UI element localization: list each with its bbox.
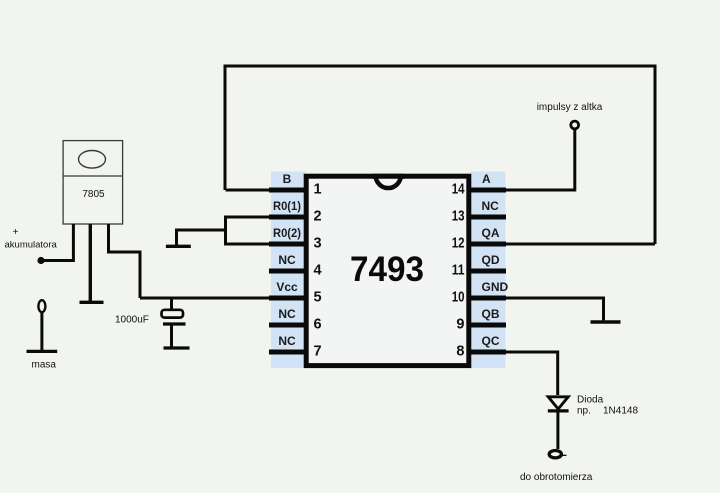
pin 7 stub <box>269 350 307 355</box>
wire 7805 ground pin <box>89 224 92 301</box>
svg-text:impulsy z altka: impulsy z altka <box>537 102 603 113</box>
pin 4 stub <box>269 269 307 274</box>
svg-text:3: 3 <box>314 236 322 252</box>
wire feedback loop (pin1 B to pin12 QA) <box>225 66 655 244</box>
svg-text:B: B <box>283 172 292 186</box>
pin 11 stub <box>468 269 506 274</box>
svg-text:14: 14 <box>452 182 465 198</box>
svg-text:QC: QC <box>482 334 500 348</box>
regulator U2 7805 body <box>63 141 123 224</box>
svg-text:NC: NC <box>278 334 296 348</box>
svg-text:8: 8 <box>456 344 464 360</box>
ground GND3 <box>591 320 621 323</box>
svg-text:QD: QD <box>482 253 500 267</box>
wire R0 to ground <box>177 230 226 245</box>
svg-text:np.: np. <box>577 406 591 417</box>
svg-text:A: A <box>482 172 491 186</box>
wire Vcc rail <box>140 297 270 300</box>
wire 7805 input pin <box>44 224 73 261</box>
svg-text:+: + <box>13 227 19 238</box>
terminal masa <box>38 300 45 312</box>
svg-text:9: 9 <box>456 317 464 333</box>
pin 3 stub <box>269 242 307 247</box>
svg-text:R0(2): R0(2) <box>273 226 301 240</box>
IC U1 right pin band <box>471 172 506 369</box>
svg-text:masa: masa <box>32 360 57 371</box>
pin 9 stub <box>468 323 506 328</box>
IC U1 notch <box>376 176 401 189</box>
svg-text:GND: GND <box>482 280 509 294</box>
svg-text:QA: QA <box>482 226 500 240</box>
pin 12 stub <box>468 242 506 247</box>
svg-text:7: 7 <box>314 344 322 360</box>
svg-text:7805: 7805 <box>82 189 105 200</box>
svg-text:QB: QB <box>482 307 500 321</box>
svg-text:10: 10 <box>452 290 465 306</box>
wire A to impulsy terminal <box>470 130 575 191</box>
diode D1 <box>548 397 568 409</box>
ground GND1 (R0) <box>166 245 191 248</box>
wire R0 junction vertical <box>224 216 227 246</box>
ground bar capacitor <box>164 346 190 349</box>
pin 5 stub <box>269 296 307 301</box>
wire GND pin10 <box>470 298 604 320</box>
svg-text:13: 13 <box>452 209 465 225</box>
pin 1 stub <box>269 188 307 193</box>
svg-text:5: 5 <box>314 290 322 306</box>
pin 2 stub <box>269 215 307 220</box>
svg-text:NC: NC <box>278 253 296 267</box>
svg-text:1N4148: 1N4148 <box>603 406 638 417</box>
ground GND2 (7805) <box>80 301 104 304</box>
IC U1 left pin band <box>271 172 306 369</box>
svg-text:6: 6 <box>314 317 322 333</box>
pin 14 stub <box>468 188 506 193</box>
wire QC to diode <box>470 352 558 395</box>
wire 7805 output pin <box>109 224 141 298</box>
svg-text:12: 12 <box>452 236 465 252</box>
svg-text:Vcc: Vcc <box>276 280 298 294</box>
capacitor C1 1000uF <box>170 298 173 310</box>
svg-text:akumulatora: akumulatora <box>5 240 58 251</box>
svg-text:do obrotomierza: do obrotomierza <box>520 472 593 483</box>
svg-text:11: 11 <box>452 263 465 279</box>
svg-text:R0(1): R0(1) <box>273 199 301 213</box>
wire R0(1) <box>226 216 271 219</box>
wire R0(2) <box>226 243 271 246</box>
pin 10 stub <box>468 296 506 301</box>
svg-text:Dioda: Dioda <box>577 395 604 406</box>
svg-text:7493: 7493 <box>350 250 424 289</box>
svg-text:4: 4 <box>314 263 322 279</box>
IC U1 7493 body <box>306 176 469 365</box>
terminal impulsy z altka <box>571 121 579 129</box>
wire B to feedback loop <box>226 189 271 192</box>
pin 6 stub <box>269 323 307 328</box>
svg-text:1000uF: 1000uF <box>115 315 149 326</box>
svg-text:1: 1 <box>314 182 322 198</box>
svg-text:NC: NC <box>278 307 296 321</box>
pin 8 stub <box>468 350 506 355</box>
pin 13 stub <box>468 215 506 220</box>
terminal dot + akumulatora <box>37 257 44 264</box>
terminal do obrotomierza <box>549 451 561 458</box>
svg-text:NC: NC <box>482 199 500 213</box>
svg-text:2: 2 <box>314 209 322 225</box>
wire QA to loop <box>470 243 655 246</box>
